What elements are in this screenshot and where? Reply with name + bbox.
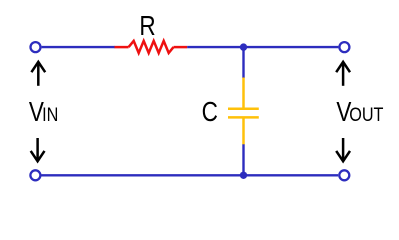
svg-text:R: R — [139, 11, 155, 42]
node: top junction (resistor/capacitor/output) — [240, 43, 247, 50]
arrow: Vout polarity up arrow — [336, 62, 350, 86]
terminal: output bottom (open circle) — [339, 170, 349, 180]
capacitor C (yellow plates with leads) — [228, 78, 259, 145]
wire: capacitor down to bottom junction — [242, 144, 244, 175]
node: bottom junction (capacitor/ground rail) — [240, 172, 247, 179]
arrow: Vin polarity down arrow — [31, 138, 45, 161]
svg-text:C: C — [202, 97, 218, 128]
resistor R (red zigzag with leads) — [115, 41, 188, 53]
wire: top rail, resistor to output node — [187, 46, 338, 48]
svg-text:VOUT: VOUT — [336, 97, 383, 128]
wire: top junction down to capacitor — [242, 47, 244, 78]
terminal: input bottom (open circle) — [30, 170, 40, 180]
terminal: output top (open circle) — [339, 42, 349, 52]
wire: bottom rail, input terminal to bottom junction — [42, 174, 244, 176]
wire: top rail, input terminal to resistor — [42, 46, 115, 48]
arrow: Vin polarity up arrow — [31, 62, 45, 86]
svg-text:VIN: VIN — [29, 97, 58, 128]
wire: bottom rail, bottom junction to output terminal — [244, 174, 339, 176]
arrow: Vout polarity down arrow — [336, 138, 350, 161]
terminal: input top (open circle) — [31, 42, 41, 52]
